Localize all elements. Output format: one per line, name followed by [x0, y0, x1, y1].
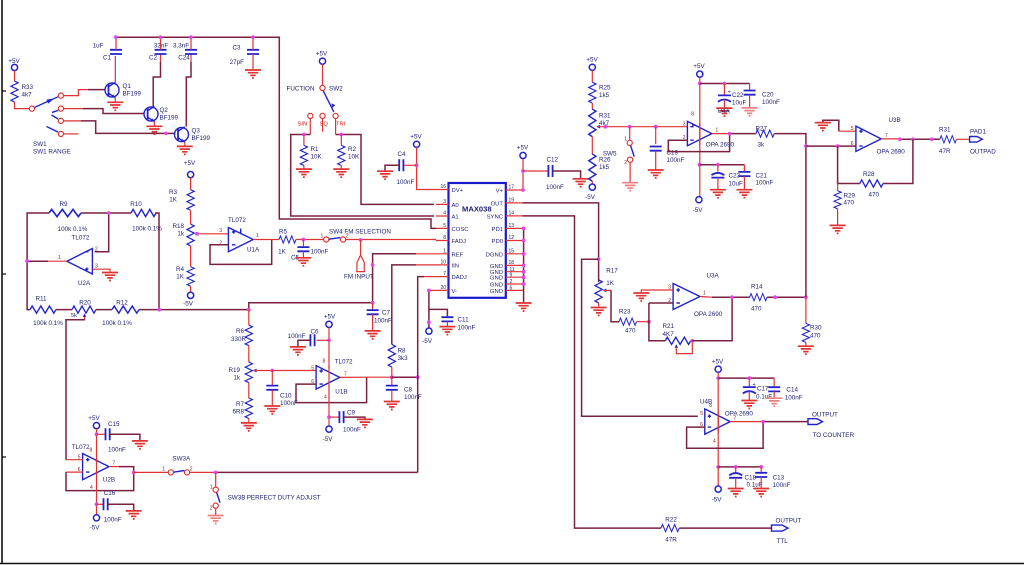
power port +5V (R25) [586, 57, 598, 71]
svg-text:100nF: 100nF [756, 180, 774, 187]
junction R1 top [302, 133, 306, 137]
junction U1B output node [390, 375, 394, 379]
svg-text:100k 0.1%: 100k 0.1% [33, 320, 63, 327]
resistor R23 470 [619, 309, 636, 335]
svg-text:R9: R9 [59, 201, 68, 208]
wire C3 bottom to ground [252, 54, 254, 70]
junction bus at C2 [159, 35, 163, 39]
wire R22 to TTL pad [679, 527, 771, 529]
junction V- [427, 289, 431, 293]
capacitor C5 100nF [291, 240, 329, 262]
ground C5 [295, 258, 311, 266]
junction on REF vertical [371, 263, 375, 267]
svg-text:FADJ: FADJ [452, 239, 466, 245]
svg-text:PERFECT DUTY ADJUST: PERFECT DUTY ADJUST [247, 495, 321, 502]
wire U4B pin4 to -5V [717, 467, 719, 486]
svg-text:+5V: +5V [693, 63, 705, 70]
svg-text:C10: C10 [280, 393, 292, 400]
wire U1A output to R5 [253, 239, 279, 241]
ground U3A pin3 [633, 293, 649, 301]
wire OUT branch to U4B pin5 [582, 259, 698, 416]
svg-text:COSC: COSC [452, 227, 470, 233]
connector OUTPUT TTL [772, 518, 802, 546]
svg-text:47R: 47R [665, 537, 677, 544]
wire R28 left to pin6 node [838, 146, 860, 183]
wire R9-R10 junction to U2A pin2 [81, 213, 131, 252]
wire U4A pin2 feedback [668, 134, 729, 152]
svg-text:FUCTION: FUCTION [287, 86, 315, 93]
junction C10 tap [270, 369, 274, 373]
wire R25 to R31 [591, 103, 593, 109]
ground C8 [384, 402, 400, 410]
junction C16 tap [95, 502, 99, 506]
svg-text:7: 7 [885, 133, 888, 139]
wire U1A feedback pin2 [210, 240, 272, 265]
svg-text:R14: R14 [751, 284, 763, 291]
wire U4A output to R27 [712, 133, 730, 135]
op-amp U4B OPA2690 [700, 399, 753, 445]
svg-text:MAX038: MAX038 [462, 205, 492, 214]
svg-text:8: 8 [691, 112, 694, 118]
ground R2 [333, 169, 349, 177]
svg-text:7: 7 [443, 271, 446, 277]
transistor Q2 BF199 [144, 106, 179, 121]
resistor R3 1K [169, 189, 194, 210]
op-amp U1B TL072 [311, 359, 353, 401]
ground C10 [264, 406, 280, 414]
wire U1B pin6 feedback [296, 377, 367, 402]
svg-text:15: 15 [509, 248, 515, 254]
capacitor C8 100nF [386, 377, 422, 401]
wire U3B output to R31 [881, 138, 899, 140]
ground C6 [290, 347, 306, 355]
svg-text:6: 6 [851, 141, 854, 147]
svg-text:+5V: +5V [316, 51, 328, 58]
svg-text:C22: C22 [732, 92, 744, 99]
svg-text:1: 1 [703, 291, 706, 297]
power port +5V (U4B) [712, 359, 724, 373]
wire SW1 throw3 to Q3 base [64, 120, 81, 122]
svg-text:+: + [728, 90, 731, 96]
svg-text:C12: C12 [547, 157, 559, 164]
junction U3B out a [898, 137, 902, 141]
svg-text:+5V: +5V [184, 160, 196, 167]
wire R21 right to U3A output [692, 297, 732, 341]
svg-text:10uF: 10uF [732, 100, 747, 107]
capacitor C13 100nF [755, 467, 790, 489]
svg-text:-5V: -5V [90, 525, 101, 532]
svg-text:OUTPUT: OUTPUT [812, 412, 838, 419]
svg-text:8: 8 [443, 235, 446, 241]
junction bus at C1 [114, 35, 118, 39]
potentiometer R17 1K [595, 268, 618, 303]
svg-text:TL072: TL072 [228, 217, 246, 224]
wire U4B -5V decoupling row [718, 466, 761, 468]
resistor R2 10K [338, 135, 360, 170]
power port +5V (U1B) [324, 314, 336, 328]
svg-text:DADJ: DADJ [452, 275, 467, 281]
svg-text:+5V: +5V [8, 58, 20, 65]
svg-text:C20: C20 [762, 92, 774, 99]
capacitor C6 100nF [288, 329, 329, 347]
wire R31 to R26 [591, 137, 593, 154]
svg-text:TL072: TL072 [72, 235, 90, 242]
junction C13 tap [759, 465, 763, 469]
wire C3 top to bus [252, 37, 254, 50]
op-amp U4A OPA2690 [683, 108, 735, 149]
wire C24 top to bus [190, 37, 192, 50]
svg-text:C13: C13 [773, 475, 785, 482]
junction U2B output node [132, 471, 136, 475]
svg-text:19: 19 [509, 197, 515, 203]
wire U3A output to R14 [700, 296, 712, 299]
border zone tick marks [2, 91, 6, 457]
wire +5V to R33 to SW1 common [15, 71, 30, 109]
junction U4B -5V row [716, 465, 720, 469]
svg-text:470: 470 [625, 328, 636, 335]
wire +5V to R25 [591, 71, 593, 83]
wire SYNC pin14 to R22 [518, 215, 522, 217]
svg-text:OUT: OUT [491, 201, 504, 207]
svg-text:R10: R10 [130, 201, 142, 208]
svg-text:330R: 330R [231, 336, 247, 343]
power port -5V (U4B) [712, 486, 723, 504]
svg-text:2: 2 [190, 467, 193, 473]
resistor R25 1k5 [589, 82, 611, 103]
svg-text:R33: R33 [22, 84, 34, 91]
svg-text:1k5: 1k5 [599, 92, 610, 99]
wire +5V to pin17 [518, 159, 523, 190]
svg-text:4K7: 4K7 [663, 331, 675, 338]
svg-text:R31: R31 [599, 113, 611, 120]
capacitor C9 100nF [329, 410, 365, 434]
ground C12 [573, 179, 589, 187]
wire Q2 emitter to ground [153, 122, 155, 127]
svg-text:+5V: +5V [517, 145, 529, 152]
svg-text:1: 1 [321, 234, 324, 240]
svg-text:-5V: -5V [712, 497, 723, 504]
wire SQ stub [322, 119, 324, 132]
wire SW1 throw2 to Q2 base [64, 108, 83, 110]
wire oscillator cap bus to COSC [116, 37, 436, 228]
resistor R33 4k7 [11, 81, 18, 102]
junction +5V row [698, 82, 702, 86]
resistor R12 100k 0.1% [102, 300, 139, 328]
wire MAX038 digital/gnd pins bus to ground [523, 228, 525, 303]
resistor R30 470 [802, 297, 822, 346]
ground C18 [728, 489, 744, 497]
svg-text:2: 2 [624, 160, 627, 166]
svg-text:1K: 1K [176, 274, 185, 281]
switch SW2 FUCTION [287, 85, 344, 112]
wire U1B pin4 to -5V [328, 386, 330, 426]
junction U4B +5V row [716, 376, 720, 380]
wire +5V to DV+ [417, 148, 436, 190]
svg-text:R7: R7 [236, 401, 245, 408]
MAX038 right pin numbers [509, 185, 515, 292]
capacitor C3 27pF [230, 45, 259, 67]
ground C15 [132, 441, 148, 449]
potentiometer R19 1k [228, 346, 256, 383]
resistor R26 1k5 [589, 154, 611, 184]
junction C12 tap [521, 169, 525, 173]
ground C7 [365, 331, 381, 339]
wire R19 wiper to U1B pin5 [254, 370, 317, 372]
svg-text:V+: V+ [496, 189, 504, 195]
svg-text:+: + [753, 382, 756, 388]
wire U2A pin3 to ground [92, 269, 110, 272]
junction C6 tap [327, 338, 331, 342]
svg-text:R21: R21 [663, 323, 675, 330]
svg-text:4: 4 [324, 395, 327, 401]
wire U3A pin3 to ground [641, 290, 673, 293]
wire rail R11-R20-R12 [56, 309, 249, 311]
wire Q2 collector to C2 [160, 54, 162, 62]
svg-text:SW1 RANGE: SW1 RANGE [33, 149, 71, 156]
svg-text:5k: 5k [71, 313, 77, 319]
resistor R28 470 [860, 171, 883, 199]
svg-text:C15: C15 [108, 421, 120, 428]
capacitor C18 0.1uF polarized [729, 467, 763, 489]
power port -5V (U4A) [693, 197, 704, 214]
junction GND18 [522, 264, 526, 268]
wire U2A output rail left [27, 213, 49, 310]
svg-text:OPA 2690: OPA 2690 [877, 149, 906, 156]
svg-text:IIN: IIN [452, 263, 460, 269]
capacitor C15 100nF [97, 421, 140, 454]
svg-text:REF: REF [452, 252, 464, 258]
svg-text:-5V: -5V [183, 301, 194, 308]
wire U2B out to SW3A [134, 471, 169, 473]
junction bus at C3 [251, 35, 255, 39]
svg-text:20: 20 [440, 285, 446, 291]
capacitor C19 100nF [650, 127, 685, 170]
potentiometer R21 4K7 [663, 323, 691, 348]
svg-text:PD1: PD1 [492, 227, 503, 233]
svg-text:FM INPUT: FM INPUT [344, 274, 374, 281]
svg-text:C17: C17 [757, 386, 769, 393]
svg-text:C18: C18 [745, 475, 757, 482]
svg-text:2: 2 [510, 279, 513, 285]
junction OUT branch [597, 257, 601, 261]
svg-text:R19: R19 [228, 367, 240, 374]
resistor R31 47R [939, 127, 956, 156]
wire C2 top to bus [160, 37, 162, 50]
svg-text:R30: R30 [810, 325, 822, 332]
svg-text:C7: C7 [382, 310, 391, 317]
connector OUTPUT TO COUNTER [808, 412, 854, 440]
svg-text:100nF: 100nF [404, 394, 422, 401]
svg-text:+5V: +5V [324, 314, 336, 321]
svg-text:R3: R3 [169, 189, 178, 196]
ground C11 [439, 327, 455, 335]
wire R10 right to rail [155, 213, 159, 310]
wire U2B pin4 to -5V [96, 478, 98, 515]
MAX038 right pin stubs [506, 190, 524, 290]
capacitor C20 100nF [744, 84, 780, 108]
wire +5V decoupling row [700, 83, 750, 85]
wire +5V to U2B pin8 [96, 429, 98, 456]
svg-text:-5V: -5V [323, 436, 334, 443]
ground R29 [830, 225, 846, 233]
wire R5 to SW4 contact1 [296, 239, 323, 241]
svg-text:2: 2 [668, 298, 671, 304]
svg-text:13: 13 [509, 223, 515, 229]
svg-text:R29: R29 [844, 193, 856, 200]
transistor Q3 BF199 [175, 127, 211, 142]
op-amp U2A TL072 [58, 235, 98, 288]
wire R20 wiper to U2B pin5 [66, 320, 85, 460]
svg-text:R6: R6 [236, 328, 245, 335]
svg-text:GND: GND [490, 264, 503, 270]
junction R31 wiper line [603, 125, 607, 129]
svg-text:SQ: SQ [320, 122, 329, 128]
svg-text:9: 9 [510, 272, 513, 278]
svg-text:C24: C24 [178, 55, 190, 62]
svg-text:GND: GND [490, 289, 503, 295]
svg-text:BF199: BF199 [123, 91, 142, 98]
svg-text:4k7: 4k7 [22, 92, 33, 99]
svg-text:R4: R4 [176, 266, 185, 273]
svg-text:-5V: -5V [585, 194, 596, 201]
junction R21 right [690, 339, 694, 343]
switch SW1 throw contacts [58, 93, 63, 98]
op-amp U1A TL072 [219, 217, 260, 254]
ground R7 [241, 423, 257, 431]
svg-text:100nF: 100nF [458, 325, 476, 332]
svg-text:SW2: SW2 [329, 86, 343, 93]
wire U2B output [109, 466, 119, 468]
junction pin17 [521, 188, 525, 192]
junction R23/U3A pin2 [647, 320, 651, 324]
svg-text:U2A: U2A [78, 280, 91, 287]
wire Q3 emitter to ground [184, 142, 186, 146]
svg-text:4: 4 [713, 439, 716, 445]
power port +5V (R3) [184, 160, 196, 178]
svg-text:SW1: SW1 [33, 141, 47, 148]
wire U4B +5V decoupling row [718, 377, 774, 379]
wire REF pin1 to divider node [416, 253, 436, 255]
svg-text:100nF: 100nF [374, 318, 392, 325]
svg-text:OPA 2690: OPA 2690 [725, 411, 754, 418]
svg-text:100k 0.1%: 100k 0.1% [58, 226, 88, 233]
svg-text:A1: A1 [452, 215, 459, 221]
wire DADJ pin7 vertical [424, 276, 436, 278]
junction C17 tap [747, 376, 751, 380]
wire R31 wiper to U4A pin3 [597, 126, 687, 128]
svg-text:100nF: 100nF [288, 333, 306, 340]
svg-text:A0: A0 [452, 203, 460, 209]
junction U3A out feedback [730, 295, 734, 299]
wire R31 to PAD1 [956, 138, 969, 140]
capacitor C7 100nF [367, 303, 392, 331]
wire Q3 collector to C24 [190, 54, 192, 62]
svg-text:100nF: 100nF [311, 249, 329, 256]
svg-text:R8: R8 [398, 348, 407, 355]
svg-text:R28: R28 [863, 171, 875, 178]
svg-text:6R8: 6R8 [232, 409, 244, 416]
switch SW5 [603, 127, 634, 183]
capacitor C21 100nF [738, 165, 773, 190]
svg-text:10uF: 10uF [729, 181, 744, 188]
svg-text:470: 470 [810, 333, 821, 340]
potentiometer R18 1k [172, 223, 198, 246]
svg-text:1: 1 [58, 255, 61, 261]
ground U3B pin5 [815, 123, 831, 131]
svg-text:7: 7 [344, 372, 347, 378]
svg-text:SW3B: SW3B [228, 495, 246, 502]
wire SW3A to DADJ net [190, 471, 216, 473]
svg-text:1: 1 [210, 485, 213, 491]
ground C14 [766, 398, 782, 406]
junction C18 tap [734, 465, 738, 469]
switch SW2 throw contacts SIN SQ TRI [298, 113, 346, 127]
svg-text:470: 470 [844, 200, 855, 207]
svg-text:100nF: 100nF [785, 395, 803, 402]
svg-text:3: 3 [219, 228, 222, 234]
svg-text:8: 8 [90, 448, 93, 454]
wire SW1 throw4 stub [64, 133, 79, 135]
sheet border bottom [0, 563, 1024, 565]
wire R23 to U3A pin2 node [637, 321, 649, 323]
svg-text:-5V: -5V [693, 207, 704, 214]
power port +5V (SW2) [316, 51, 328, 65]
capacitor C1 1uF [93, 43, 122, 62]
switch SW4 FM SELECTION [321, 229, 392, 243]
junction GND2 [522, 282, 526, 286]
svg-text:3: 3 [683, 122, 686, 128]
svg-text:R20: R20 [79, 300, 91, 307]
junction R18 wiper [195, 232, 199, 236]
svg-text:TL072: TL072 [335, 359, 353, 366]
svg-text:R26: R26 [599, 157, 611, 164]
svg-text:Q3: Q3 [192, 128, 201, 135]
svg-text:R23: R23 [619, 309, 631, 316]
capacitor C11 100nF [429, 309, 476, 331]
connector FM INPUT [344, 240, 374, 280]
svg-text:OUTPAD: OUTPAD [970, 149, 996, 156]
switch SW3A [162, 456, 193, 476]
resistor R8 3k3 [388, 344, 408, 377]
resistor R29 470 [834, 184, 856, 226]
svg-text:+5V: +5V [410, 134, 422, 141]
svg-text:100k 0.1%: 100k 0.1% [132, 226, 162, 233]
potentiometer R20 5k [71, 300, 96, 321]
MAX038 right pin names [486, 189, 504, 295]
wire TRI contact to R2 node [335, 119, 337, 135]
wire U3B pin5 to ground [839, 130, 856, 132]
svg-text:R31: R31 [939, 127, 951, 134]
junction C11 branch [427, 320, 431, 324]
ground C13 [753, 489, 769, 497]
svg-text:+5V: +5V [712, 359, 724, 366]
svg-text:C16: C16 [104, 490, 116, 497]
svg-text:5: 5 [700, 411, 703, 417]
svg-text:100k 0.1%: 100k 0.1% [102, 320, 132, 327]
ground Q3 [177, 146, 193, 154]
svg-text:10K: 10K [311, 154, 323, 161]
junction C19 tap [654, 125, 658, 129]
svg-text:100nF: 100nF [667, 157, 685, 164]
svg-text:PD0: PD0 [492, 239, 504, 245]
wire +5V to SW2 common [322, 64, 324, 85]
junction -5V row [698, 163, 702, 167]
power port +5V (R33) [8, 58, 20, 71]
wire V- pin20 to -5V [429, 289, 436, 291]
power port +5V (V+ pin17) [517, 145, 529, 159]
svg-text:2: 2 [95, 247, 98, 253]
capacitor C22 10uF polarized [718, 84, 747, 109]
